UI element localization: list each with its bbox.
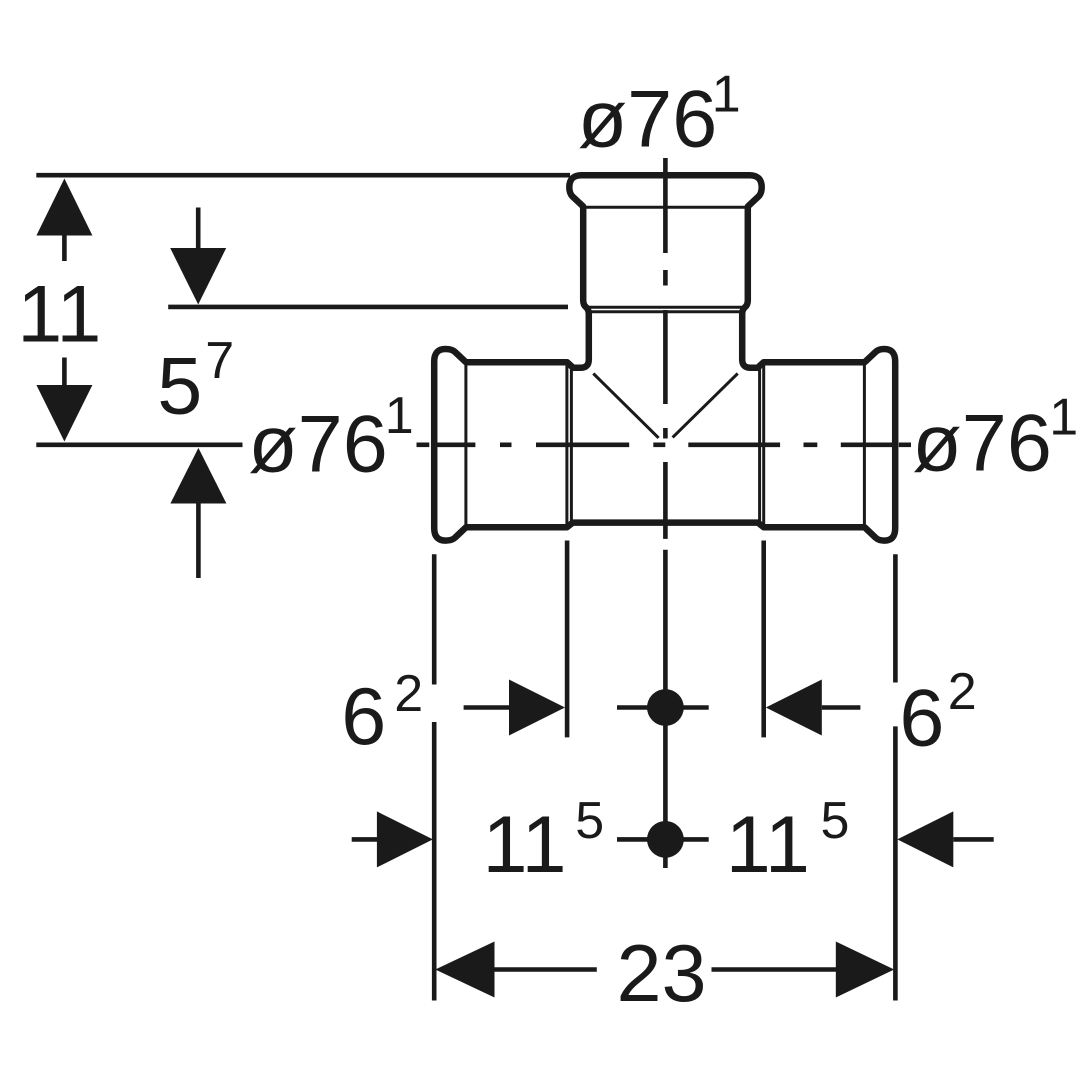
center extension line xyxy=(663,550,668,868)
vertical centerline dash-dot xyxy=(663,158,668,539)
top socket end line (inner) xyxy=(590,310,742,313)
row 23: left arrow xyxy=(435,942,494,998)
svg-text:23: 23 xyxy=(617,929,707,1019)
svg-text:1: 1 xyxy=(712,65,741,123)
svg-text:5: 5 xyxy=(821,792,850,850)
row 11.5: center dot xyxy=(647,821,684,858)
svg-text:ø76: ø76 xyxy=(248,399,388,489)
right bell inner edge line xyxy=(863,362,866,527)
svg-text:1: 1 xyxy=(1049,389,1078,447)
svg-text:6: 6 xyxy=(899,674,944,764)
svg-text:1: 1 xyxy=(385,387,414,445)
horizontal centerline dash-dot xyxy=(417,442,912,447)
row 6.2: center dot xyxy=(647,689,684,726)
extension line at socket depth (5.7) xyxy=(168,305,568,310)
row 11.5: far-right arrow left xyxy=(897,811,953,867)
svg-text:11: 11 xyxy=(483,800,567,890)
row 11.5: far-left arrow right xyxy=(352,837,378,842)
arrowhead 5.7 up xyxy=(170,448,226,504)
right socket end line (inner) xyxy=(758,368,761,523)
extension line top (bell top level) xyxy=(36,173,570,178)
arrow tail 5.7 top xyxy=(196,208,201,249)
svg-text:ø76: ø76 xyxy=(912,398,1052,488)
bottom extension lines xyxy=(434,541,895,1001)
fitting T-piece outline xyxy=(434,175,895,540)
row 6.2: arrow left xyxy=(766,680,822,736)
row 6.2: arrow right xyxy=(464,705,510,710)
junction V diagonal left xyxy=(593,374,658,438)
arrow tail 11 top xyxy=(62,235,67,261)
arrowhead 5.7 down xyxy=(170,248,226,305)
svg-text:11: 11 xyxy=(726,800,810,890)
left bell inner edge line xyxy=(464,362,467,527)
right socket end line (outer) xyxy=(762,362,765,527)
left socket end line (outer) xyxy=(565,362,568,527)
svg-text:2: 2 xyxy=(394,665,423,723)
svg-text:11: 11 xyxy=(17,269,101,359)
extension line at centerline level xyxy=(36,442,242,447)
svg-text:5: 5 xyxy=(157,342,202,432)
arrow tail 5.7 bottom xyxy=(196,503,201,578)
svg-text:2: 2 xyxy=(948,663,977,721)
row 23: right arrow xyxy=(712,967,837,972)
left socket end line (inner) xyxy=(570,368,573,523)
top bell inner edge line xyxy=(584,206,747,209)
svg-text:ø76: ø76 xyxy=(578,75,718,165)
svg-text:5: 5 xyxy=(575,792,604,850)
arrowhead 11 down xyxy=(36,385,92,442)
svg-text:6: 6 xyxy=(341,672,386,762)
dimension lines left block xyxy=(36,175,570,578)
arrowhead 11 up xyxy=(36,179,92,236)
junction V diagonal right xyxy=(673,374,738,438)
arrow tail 11 bottom xyxy=(62,358,67,386)
top socket end line (outer) xyxy=(584,306,747,309)
svg-text:7: 7 xyxy=(205,332,234,390)
